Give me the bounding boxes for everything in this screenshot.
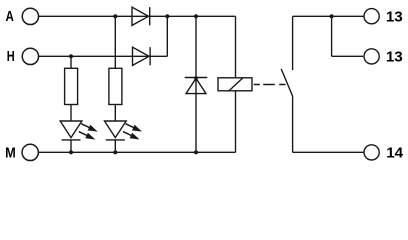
- svg-text:H: H: [7, 47, 15, 64]
- wire R2 to LED2: [114, 105, 116, 122]
- wire LED1 branch vertical: [70, 56, 72, 68]
- node suppressor diode apex dot: [194, 76, 198, 80]
- wire contact fixed vertical: [292, 16, 294, 70]
- node junction A-wire / D2 riser: [165, 14, 169, 18]
- wire D2 riser vertical: [166, 16, 168, 56]
- resistor R2: [109, 68, 122, 104]
- LED D5 (A status): [105, 121, 127, 140]
- suppressor diode D3: [185, 78, 208, 94]
- svg-text:A: A: [6, 8, 15, 25]
- node junction A-wire / LED2 branch: [113, 14, 117, 18]
- svg-text:13: 13: [386, 48, 403, 65]
- LED D5 emission arrows: [123, 124, 142, 140]
- terminal circle 13 upper: [364, 9, 379, 24]
- wire bottom to 14: [293, 151, 364, 153]
- node junction M-wire / LED2: [113, 150, 117, 154]
- wire LED2 branch vertical (crosses H wire without joint): [114, 16, 116, 68]
- svg-text:13: 13: [386, 9, 403, 26]
- wire LED2 to M wire: [114, 140, 116, 152]
- wire R1 to LED1: [70, 105, 72, 122]
- wire M horizontal: [39, 151, 236, 153]
- terminal circle M: [22, 144, 38, 160]
- terminal circle 13 lower: [364, 49, 379, 64]
- switch blade (NO contact): [281, 69, 293, 97]
- node junction M-wire / LED1: [69, 150, 73, 154]
- resistor R1: [65, 68, 78, 104]
- relay coil K1: [218, 78, 252, 91]
- node junction 13 tee: [330, 14, 334, 18]
- node junction H-wire / LED1 branch: [69, 54, 73, 58]
- wire contact top horizontal to 13: [293, 15, 364, 17]
- terminal circle A: [22, 8, 38, 24]
- svg-text:M: M: [5, 145, 16, 161]
- wire suppressor branch vertical: [195, 16, 197, 152]
- diode D1: [132, 7, 150, 25]
- node junction A-wire / suppressor branch: [194, 14, 198, 18]
- svg-text:14: 14: [386, 144, 403, 161]
- wire contact movable vertical: [292, 96, 294, 152]
- wire LED1 to M wire: [70, 140, 72, 152]
- terminal circle 14: [364, 145, 379, 160]
- terminal circle H: [22, 48, 38, 64]
- wire to second 13: [332, 55, 364, 57]
- LED D4 (H status): [60, 121, 82, 140]
- node junction M-wire / suppressor: [194, 150, 198, 154]
- wire 13 tee vertical: [331, 16, 333, 56]
- wire coil feed vertical: [235, 16, 237, 78]
- wire coil return vertical: [235, 91, 237, 153]
- wire A horizontal: [39, 15, 236, 17]
- wire H horizontal: [39, 55, 167, 57]
- diode D2: [133, 47, 151, 65]
- LED D4 emission arrows: [79, 124, 98, 140]
- dashed actuation link: [254, 84, 286, 86]
